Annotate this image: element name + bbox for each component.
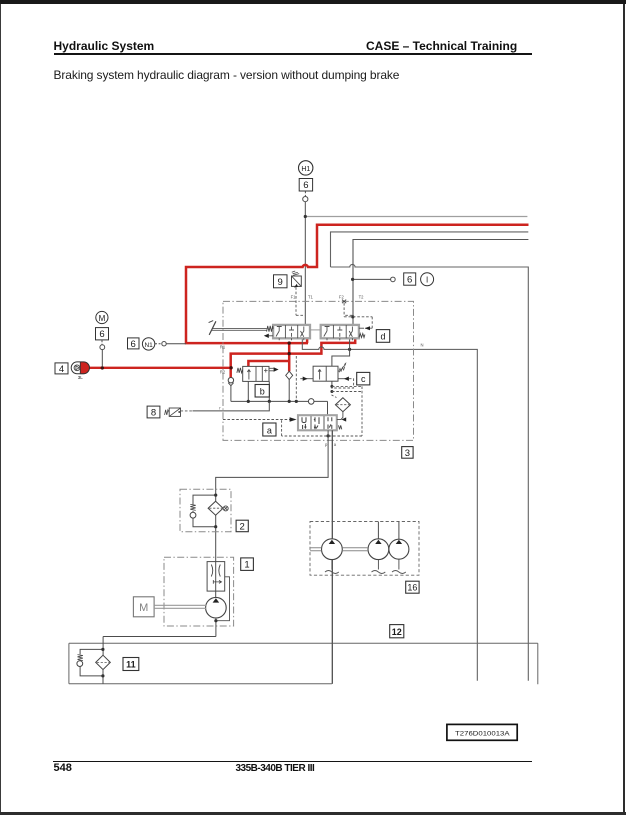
- svg-text:1: 1: [244, 560, 249, 571]
- svg-text:16: 16: [407, 583, 417, 593]
- svg-text:I: I: [426, 276, 428, 285]
- svg-text:b: b: [260, 386, 265, 396]
- svg-text:6: 6: [407, 275, 412, 286]
- svg-text:H1: H1: [301, 166, 310, 173]
- svg-text:8: 8: [151, 407, 156, 418]
- svg-text:F1: F1: [291, 295, 297, 300]
- svg-text:R1: R1: [220, 345, 226, 350]
- svg-text:N: N: [421, 343, 424, 348]
- svg-text:11: 11: [126, 660, 136, 670]
- svg-text:T2: T2: [359, 295, 365, 300]
- svg-text:r: r: [219, 406, 221, 411]
- svg-text:T276D010013A: T276D010013A: [455, 730, 510, 737]
- svg-text:12: 12: [392, 627, 402, 637]
- svg-text:4: 4: [59, 364, 64, 375]
- svg-text:3: 3: [405, 448, 410, 459]
- svg-text:c: c: [361, 374, 366, 384]
- svg-text:d: d: [380, 331, 385, 341]
- svg-text:a: a: [267, 426, 272, 436]
- svg-text:p: p: [325, 442, 328, 447]
- svg-text:9: 9: [278, 277, 283, 288]
- svg-text:M: M: [139, 602, 148, 614]
- svg-text:2: 2: [240, 522, 245, 533]
- svg-text:a: a: [334, 442, 337, 447]
- svg-text:6: 6: [99, 329, 104, 340]
- svg-text:M: M: [99, 314, 106, 323]
- svg-text:T1: T1: [308, 295, 314, 300]
- svg-text:6: 6: [131, 339, 136, 350]
- svg-text:3L: 3L: [78, 375, 84, 380]
- svg-text:N1: N1: [144, 342, 153, 349]
- svg-text:R2: R2: [220, 370, 226, 375]
- svg-text:6: 6: [303, 180, 308, 191]
- svg-text:F2: F2: [339, 295, 345, 300]
